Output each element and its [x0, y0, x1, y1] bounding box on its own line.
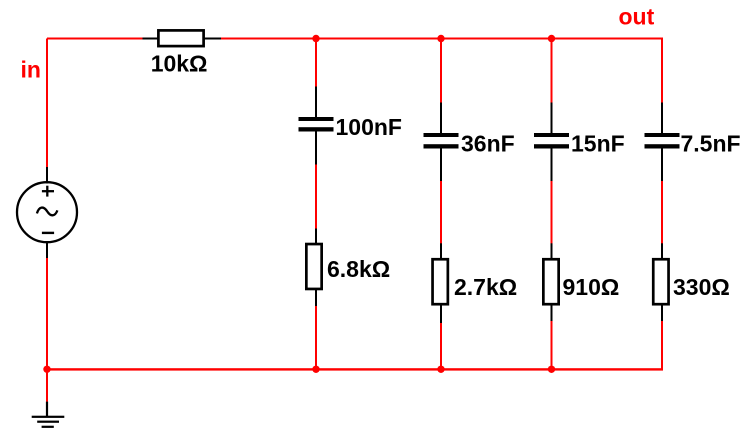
wire ground stub — [46, 369, 48, 402]
svg-text:15nF: 15nF — [571, 131, 625, 157]
wire bottom rail — [46, 368, 663, 370]
value label 7.5nF — [681, 131, 741, 157]
node in label — [21, 57, 41, 83]
wire branch3 middle — [551, 181, 553, 244]
value label 36nF — [461, 131, 515, 157]
resistor 10kΩ (R series) — [143, 30, 222, 46]
node junction dot bottom branch3 — [548, 366, 555, 373]
svg-text:330Ω: 330Ω — [673, 274, 730, 300]
node junction dot bottom ground — [43, 366, 50, 373]
node junction dot bottom branch2 — [437, 366, 444, 373]
wire branch3 bottom — [551, 321, 553, 370]
wire branch1 bottom — [315, 306, 317, 370]
wire branch1 top — [315, 39, 317, 88]
wire branch2 bottom — [440, 323, 442, 370]
value label 2.7kΩ — [454, 274, 517, 300]
wire branch3 top — [551, 39, 553, 104]
wire top rail left: in corner to R1 — [47, 38, 144, 40]
svg-text:36nF: 36nF — [461, 131, 515, 157]
svg-text:out: out — [619, 4, 655, 30]
node junction dot bottom branch1 — [312, 366, 319, 373]
capacitor 15nF (branch3) — [534, 103, 569, 182]
wire right vertical upper (out) — [661, 39, 663, 104]
svg-text:in: in — [21, 57, 41, 83]
wire branch4 bottom — [661, 321, 663, 371]
capacitor 100nF (branch1) — [299, 87, 334, 166]
capacitor 7.5nF (branch4) — [645, 103, 680, 182]
value label 10kΩ — [151, 51, 208, 77]
wire top rail R1 to branch4 out corner — [220, 38, 663, 40]
node junction dot top branch2 — [437, 35, 444, 42]
value label 330Ω — [673, 274, 730, 300]
value label 100nF — [336, 114, 402, 140]
resistor 2.7kΩ (branch2) — [433, 243, 448, 323]
node junction dot top branch3 — [548, 35, 555, 42]
svg-text:100nF: 100nF — [336, 114, 402, 140]
value label 910Ω — [563, 274, 620, 300]
wire branch2 top — [440, 39, 442, 104]
wire left vertical upper (in wire) — [46, 39, 48, 169]
svg-text:10kΩ: 10kΩ — [151, 51, 208, 77]
wire branch1 middle — [315, 165, 317, 230]
wire left vertical lower (source to bottom rail) — [46, 257, 48, 370]
svg-text:910Ω: 910Ω — [563, 274, 620, 300]
node out label — [619, 4, 655, 30]
svg-text:2.7kΩ: 2.7kΩ — [454, 274, 517, 300]
node junction dot top branch1 — [312, 35, 319, 42]
value label 15nF — [571, 131, 625, 157]
capacitor 36nF (branch2) — [424, 103, 459, 182]
resistor 910Ω (branch3) — [543, 243, 558, 321]
value label 6.8kΩ — [327, 256, 390, 282]
svg-text:7.5nF: 7.5nF — [681, 131, 741, 157]
resistor 6.8kΩ (branch1) — [306, 229, 321, 307]
resistor 330Ω (branch4) — [653, 243, 668, 321]
wire branch4 middle — [661, 181, 663, 244]
svg-text:6.8kΩ: 6.8kΩ — [327, 256, 390, 282]
wire branch2 middle — [440, 181, 442, 244]
AC voltage source — [17, 167, 77, 258]
ground — [32, 402, 65, 428]
